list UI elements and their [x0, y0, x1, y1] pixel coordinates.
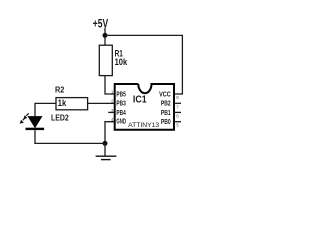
- svg-text:+5V: +5V: [93, 16, 109, 30]
- svg-text:10k: 10k: [115, 57, 128, 67]
- svg-text:PB3: PB3: [116, 101, 125, 108]
- resistor R1 body: [99, 45, 112, 75]
- wire R2 right to PB3 pin 2: [88, 102, 115, 104]
- LED LED2 triangle anode: [28, 116, 43, 128]
- svg-text:ATTINY13: ATTINY13: [128, 122, 159, 129]
- LED light arrow 1: [26, 113, 29, 116]
- LED light arrow 2: [23, 118, 26, 121]
- wire LED anode corner to R2 left: [35, 102, 56, 104]
- svg-text:PB1: PB1: [161, 110, 171, 117]
- wire junction down to ground symbol: [104, 143, 106, 156]
- wire junction to right corner: [105, 34, 182, 36]
- svg-text:1k: 1k: [58, 97, 67, 108]
- svg-text:PB2: PB2: [161, 101, 171, 108]
- pin stub PB1 pin 6: [174, 111, 181, 113]
- wire R1 bottom to PB5 pin 1: [105, 76, 115, 94]
- wire LED cathode down and right to ground junction: [35, 130, 105, 144]
- svg-text:PB5: PB5: [116, 91, 125, 98]
- pin stub PB0 pin 5: [174, 121, 181, 123]
- junction dot node VCC net: [103, 33, 108, 38]
- wire right vertical down to VCC: [181, 35, 183, 94]
- svg-text:PB4: PB4: [116, 110, 125, 117]
- svg-text:R2: R2: [55, 85, 65, 95]
- svg-text:VCC: VCC: [159, 91, 171, 98]
- op IC1 ATTINY13 body with notch: [115, 84, 174, 130]
- wire +5V pin down to junction: [104, 28, 106, 45]
- pin stub PB4 pin 3: [108, 111, 115, 113]
- pin stub PB2 pin 7: [174, 102, 181, 104]
- wire GND pin 4 left and down: [105, 122, 115, 144]
- LED LED2 cathode bar: [26, 128, 45, 130]
- svg-text:GND: GND: [116, 118, 126, 125]
- wire into VCC pin 8 stub: [174, 93, 183, 95]
- ground symbol line 1: [96, 155, 117, 157]
- svg-text:IC1: IC1: [133, 95, 147, 106]
- junction dot ground net: [103, 141, 108, 146]
- wire down to LED anode: [34, 103, 36, 117]
- resistor R2 body: [56, 98, 88, 110]
- svg-text:PB0: PB0: [161, 119, 171, 126]
- ground symbol line 2: [101, 159, 111, 161]
- svg-text:LED2: LED2: [51, 112, 69, 122]
